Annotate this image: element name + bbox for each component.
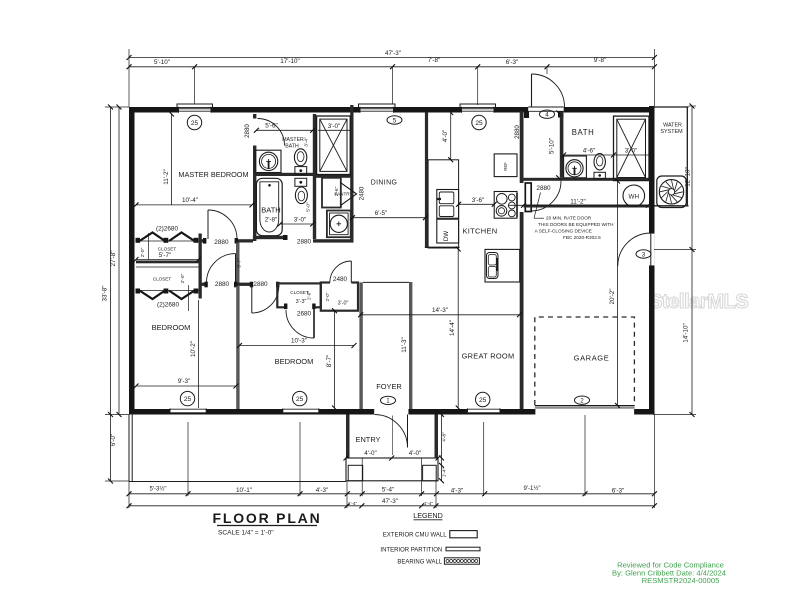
svg-text:12'-10": 12'-10" [685, 167, 692, 187]
svg-text:4'-0": 4'-0" [364, 450, 377, 457]
svg-text:4'-0": 4'-0" [442, 130, 449, 143]
svg-text:SYSTEM: SYSTEM [660, 129, 683, 135]
door 2880 bedroom 1 [235, 254, 237, 283]
svg-text:6'-3": 6'-3" [506, 59, 519, 66]
door 2880 bedroom 2 [252, 286, 279, 313]
closet2 bifold doors chevrons [140, 291, 166, 300]
exterior wall top [129, 107, 654, 113]
right dim line 12'-10" [691, 106, 693, 250]
bedroom2 closet [277, 283, 321, 307]
svg-text:25: 25 [296, 396, 304, 403]
garage dashed parking outline [535, 317, 635, 405]
svg-text:2'-0": 2'-0" [325, 292, 330, 301]
air handler fan [657, 176, 687, 208]
svg-text:9'-1½": 9'-1½" [524, 485, 541, 492]
svg-text:A SELF-CLOSING DEVICE: A SELF-CLOSING DEVICE [535, 229, 592, 234]
svg-text:MASTER BEDROOM: MASTER BEDROOM [178, 170, 248, 179]
svg-text:2880: 2880 [214, 239, 229, 246]
door 2880 master bedroom [207, 210, 209, 239]
dim 4'-0" kitchen [450, 113, 452, 160]
svg-text:THIS DOORS BE EQUIPPED WITH: THIS DOORS BE EQUIPPED WITH [538, 222, 614, 227]
dim 2'-0" closet1 line [148, 233, 150, 260]
svg-text:5'-7": 5'-7" [159, 252, 172, 259]
dim 5'-6" master bath [256, 129, 312, 131]
svg-text:FOYER: FOYER [376, 382, 401, 391]
svg-text:6'-5": 6'-5" [375, 210, 388, 217]
bottom dim line segments [129, 493, 654, 495]
window 25 bedroom 2 bottom [283, 408, 319, 414]
window 25 great room bottom [468, 408, 501, 414]
entry walls [346, 415, 350, 459]
bottom extension lines [187, 422, 189, 496]
water heater WH [623, 185, 645, 207]
master shower [317, 116, 351, 175]
svg-text:3'-0": 3'-0" [328, 123, 341, 130]
svg-text:2880: 2880 [536, 185, 551, 192]
svg-text:2'-0": 2'-0" [140, 247, 146, 257]
svg-text:1'-4": 1'-4" [348, 501, 358, 506]
dishwasher DW [437, 219, 459, 243]
svg-text:5'-6": 5'-6" [265, 123, 278, 130]
svg-text:3'-0": 3'-0" [294, 217, 307, 224]
svg-text:3'-4": 3'-4" [304, 137, 310, 147]
svg-text:11'-2": 11'-2" [570, 198, 586, 205]
kitchen sink [437, 190, 459, 219]
dim 10'-3" bedroom2 [240, 345, 355, 347]
svg-text:47'-3": 47'-3" [382, 498, 398, 505]
svg-text:11'-3": 11'-3" [401, 337, 408, 353]
svg-text:REF: REF [503, 162, 508, 171]
svg-text:2880: 2880 [514, 125, 521, 139]
svg-text:2480: 2480 [333, 276, 348, 283]
svg-text:FLOOR PLAN: FLOOR PLAN [213, 510, 322, 526]
svg-text:FBC 2020-R302.5: FBC 2020-R302.5 [563, 235, 601, 240]
door master bath [258, 119, 285, 146]
closet1 bifold doors chevrons [140, 233, 166, 242]
dim 9'-3" bedroom1 [136, 385, 236, 387]
top dim line 47'-3" [129, 57, 654, 59]
wall garage north [524, 205, 651, 208]
svg-text:9'-3": 9'-3" [178, 378, 191, 385]
dim 2'-0" closet2 line [188, 285, 190, 311]
master bath toilet [294, 149, 306, 166]
svg-text:4'-6": 4'-6" [583, 148, 596, 155]
svg-text:6'-0": 6'-0" [110, 434, 117, 447]
svg-text:4'-8": 4'-8" [441, 432, 447, 442]
exterior wall right [649, 106, 655, 415]
front door 1 foyer [374, 409, 409, 415]
entry steps [346, 458, 438, 481]
svg-text:1'-4": 1'-4" [441, 467, 447, 477]
svg-text:WH: WH [629, 193, 640, 200]
wall master shower west [313, 114, 316, 239]
dim 14'-3" great room [361, 314, 520, 316]
refrigerator [494, 154, 517, 177]
dim 3'-0" main bath [280, 223, 313, 225]
top dim line segments [129, 66, 654, 68]
svg-text:11'-2": 11'-2" [163, 169, 170, 185]
svg-text:5'-3½": 5'-3½" [150, 486, 167, 493]
svg-text:3'-0": 3'-0" [625, 148, 638, 155]
svg-text:BEDROOM: BEDROOM [275, 357, 314, 366]
svg-text:2880: 2880 [297, 239, 312, 246]
exterior wall bottom [129, 409, 654, 415]
svg-text:14'-4": 14'-4" [449, 320, 456, 336]
svg-text:CLOSET: CLOSET [158, 247, 177, 252]
svg-text:6'-3": 6'-3" [612, 487, 625, 494]
svg-text:2'-8": 2'-8" [265, 217, 278, 224]
svg-text:9'-8": 9'-8" [594, 57, 607, 64]
svg-text:4'-0": 4'-0" [409, 450, 422, 457]
wall shower east [350, 105, 353, 243]
svg-text:EXTERIOR CMU WALL: EXTERIOR CMU WALL [383, 532, 447, 538]
wall shower south / pantry north [316, 175, 354, 178]
window 25 kitchen nook [462, 107, 495, 113]
svg-text:14'-3": 14'-3" [432, 307, 448, 314]
bath shower right [614, 116, 650, 181]
svg-text:4'-3": 4'-3" [451, 487, 464, 494]
svg-text:(2)2680: (2)2680 [157, 302, 179, 309]
svg-text:BEDROOM: BEDROOM [152, 323, 191, 332]
svg-text:1'-4": 1'-4" [424, 501, 434, 506]
svg-text:27'-8": 27'-8" [110, 250, 117, 266]
master bath vanity [255, 150, 281, 172]
svg-text:47'-3": 47'-3" [385, 50, 401, 57]
svg-text:7'-8": 7'-8" [428, 57, 441, 64]
svg-text:3'-7": 3'-7" [236, 258, 242, 268]
wall kitchen west [425, 112, 428, 248]
svg-text:10'-4": 10'-4" [182, 197, 198, 204]
svg-text:2680: 2680 [297, 310, 312, 317]
svg-text:3: 3 [642, 251, 646, 258]
wall bath south [524, 178, 651, 181]
svg-text:8'-7": 8'-7" [326, 355, 333, 368]
svg-text:2: 2 [580, 398, 584, 405]
svg-text:GARAGE: GARAGE [574, 354, 610, 363]
wall foyer east bearing [409, 282, 412, 409]
svg-text:5'-4": 5'-4" [382, 487, 395, 494]
svg-text:3'-3": 3'-3" [296, 299, 307, 305]
wall bedroom divider [236, 286, 239, 409]
garage side door 3 [649, 233, 654, 266]
foyer header line [363, 281, 409, 283]
wall main bath south [253, 236, 286, 239]
patio edge left [128, 415, 130, 482]
window 25 master bedroom [179, 107, 212, 113]
svg-text:25: 25 [479, 397, 487, 404]
exterior wall left [129, 107, 135, 415]
wall hall south / bedroom north [199, 283, 207, 286]
svg-text:4'-3": 4'-3" [316, 487, 329, 494]
door 2880 great room to hall [525, 183, 531, 212]
svg-text:20 MIN. RATE DOOR: 20 MIN. RATE DOOR [546, 216, 592, 221]
door 2480 hall closet [350, 261, 352, 283]
svg-text:(2)2680: (2)2680 [156, 226, 178, 233]
svg-text:1: 1 [386, 398, 390, 405]
water system enclosure walls [654, 106, 689, 108]
svg-text:CLOSET: CLOSET [290, 290, 309, 295]
svg-text:2880: 2880 [253, 281, 268, 288]
main bath tub [256, 178, 282, 235]
hall closet [321, 283, 358, 311]
dim 11'-2" hall garage [508, 204, 648, 206]
dim 14'-4" great room vertical [457, 249, 459, 408]
garage door 2 [535, 409, 635, 415]
svg-text:INTERIOR PARTITION: INTERIOR PARTITION [380, 548, 442, 554]
svg-text:PANTRY: PANTRY [334, 192, 352, 197]
door 2680 bedroom2 closet [313, 307, 315, 338]
closet walls master closets [199, 234, 202, 299]
svg-text:10'-3": 10'-3" [291, 338, 307, 345]
svg-text:DW: DW [443, 231, 450, 241]
range [494, 192, 517, 219]
left dim line 27'-8" [118, 107, 120, 415]
wall master bath mid [253, 173, 316, 176]
exterior door 4 side entry swings out [528, 107, 564, 113]
svg-text:StellarMLS: StellarMLS [649, 291, 748, 313]
svg-text:2480: 2480 [359, 186, 366, 200]
svg-text:CLOSET: CLOSET [153, 277, 172, 282]
dim 10'-4" master bedroom [136, 204, 252, 206]
svg-text:20'-2": 20'-2" [609, 288, 616, 304]
svg-text:25: 25 [475, 120, 483, 127]
dim 4'-6" bath [564, 154, 614, 156]
svg-text:5'-0": 5'-0" [306, 202, 312, 212]
svg-text:25: 25 [191, 120, 199, 127]
svg-text:DINING: DINING [371, 180, 398, 187]
wall foyer west bearing [359, 282, 362, 409]
svg-text:5'-10": 5'-10" [154, 59, 170, 66]
svg-text:LEGEND: LEGEND [413, 511, 443, 520]
svg-text:25: 25 [184, 396, 192, 403]
svg-text:3'-0": 3'-0" [338, 301, 349, 307]
wall hall north (bedroom side) [199, 239, 254, 242]
svg-text:RESMSTR2024-00005: RESMSTR2024-00005 [642, 576, 720, 585]
svg-text:BEARING WALL: BEARING WALL [397, 559, 442, 565]
svg-text:SCALE 1/4" = 1'-0": SCALE 1/4" = 1'-0" [218, 530, 274, 537]
bottom dim line 47'-3" [129, 505, 654, 507]
dim 4'-0" entry x2 [346, 457, 438, 459]
bath toilet right [594, 154, 605, 170]
window 5 dining [360, 107, 394, 113]
svg-text:GREAT ROOM: GREAT ROOM [462, 352, 515, 361]
wall master bath west [253, 114, 256, 241]
svg-text:5'-10": 5'-10" [549, 138, 556, 154]
svg-text:BATH: BATH [261, 206, 280, 215]
svg-text:2880: 2880 [244, 124, 251, 138]
svg-text:WATER: WATER [663, 123, 682, 129]
svg-text:14'-10": 14'-10" [683, 323, 690, 343]
dim 8'-7" bedroom2 [334, 311, 336, 408]
window 25 bedroom 1 bottom [170, 408, 206, 414]
dim 11'-2" master bedroom [171, 114, 173, 205]
pantry [322, 178, 341, 208]
counter bottom edge [425, 246, 460, 248]
wall laundry south [313, 239, 354, 242]
dim 6'-5" dining [353, 217, 426, 219]
svg-text:BATH: BATH [285, 144, 299, 150]
svg-text:2880: 2880 [215, 281, 230, 288]
svg-text:4: 4 [545, 112, 549, 119]
wall hall east [236, 243, 240, 284]
svg-text:3'-6": 3'-6" [472, 197, 485, 204]
right dim line 14'-10" [691, 250, 693, 415]
svg-text:5: 5 [393, 117, 397, 124]
svg-text:10'-2": 10'-2" [190, 341, 197, 357]
svg-text:2'-0": 2'-0" [180, 273, 186, 283]
left dim line 33'-8" [110, 107, 112, 481]
svg-text:ENTRY: ENTRY [356, 435, 381, 444]
wall vestibule / bath west [560, 112, 564, 178]
dim 3'-6" kitchen [459, 203, 495, 205]
svg-text:KITCHEN: KITCHEN [462, 227, 497, 236]
laundry closet with washer [327, 211, 351, 238]
svg-text:10'-1": 10'-1" [236, 487, 252, 494]
svg-text:17'-10": 17'-10" [280, 58, 300, 65]
main bath toilet [295, 178, 307, 186]
svg-text:MASTER: MASTER [282, 137, 304, 143]
dim 20'-2" garage [617, 181, 619, 406]
dim 5'-7" closet [136, 259, 199, 261]
dim 4'-8" entry side [441, 415, 443, 481]
kitchen counter left [428, 160, 459, 248]
svg-text:33'-8": 33'-8" [102, 285, 109, 301]
dim 10'-2" bedroom1 [198, 300, 200, 408]
wall kitchen east / garage west [520, 111, 524, 409]
kitchen peninsula sink [485, 249, 520, 282]
svg-text:BATH: BATH [572, 128, 595, 137]
bath vanity right [564, 156, 587, 178]
